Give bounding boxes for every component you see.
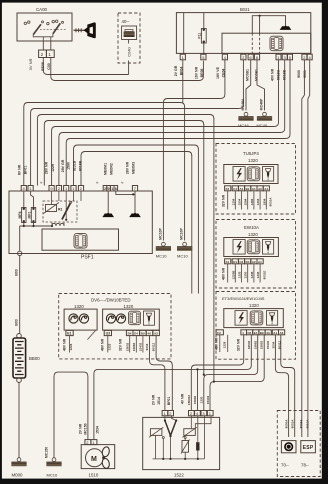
svg-text:ET3/EW10J4/EW10J4S: ET3/EW10J4/EW10J4S xyxy=(222,296,265,301)
pin 5 right group xyxy=(288,54,293,60)
svg-text:E4: E4 xyxy=(134,332,138,336)
svg-text:15402: 15402 xyxy=(206,395,210,404)
svg-text:A1: A1 xyxy=(239,187,243,191)
wire BSI pin6 to MC46A xyxy=(246,60,251,111)
svg-text:M: M xyxy=(91,456,97,463)
svg-text:C00: C00 xyxy=(47,63,51,69)
wire L2 : PSF1 pin1 to BSI pin2 xyxy=(31,109,240,186)
pin 5 xyxy=(201,54,206,60)
svg-text:MC10P: MC10P xyxy=(158,227,162,239)
relay feed wires from pins xyxy=(52,191,81,220)
svg-text:R1: R1 xyxy=(58,208,63,212)
svg-text:MC150: MC150 xyxy=(44,447,48,458)
svg-text:MC46P: MC46P xyxy=(260,98,264,110)
relay R1 dashed box xyxy=(43,201,77,222)
svg-text:15992: 15992 xyxy=(132,342,136,351)
ECU DV6/DW10BTED 1320 xyxy=(59,294,171,359)
svg-text:1534: 1534 xyxy=(95,426,99,434)
svg-text:MC150: MC150 xyxy=(84,423,88,434)
svg-text:9018B: 9018B xyxy=(78,160,82,171)
svg-text:B9: B9 xyxy=(260,331,264,335)
svg-text:1335: 1335 xyxy=(238,271,242,278)
wire L6 : PSF1 to BSI right pin drop xyxy=(59,133,281,186)
svg-text:MC46: MC46 xyxy=(257,123,268,128)
svg-text:MC46A: MC46A xyxy=(241,98,245,110)
svg-text:A9: A9 xyxy=(258,187,262,191)
svg-text:15402: 15402 xyxy=(138,342,142,351)
svg-text:1504: 1504 xyxy=(238,198,242,205)
svg-text:1204: 1204 xyxy=(231,198,235,205)
svg-text:15992: 15992 xyxy=(253,340,257,349)
1522 interior xyxy=(149,416,211,460)
svg-text:1304: 1304 xyxy=(256,198,260,205)
DV6 right stubs xyxy=(130,336,143,353)
svg-text:9001Z: 9001Z xyxy=(152,343,156,352)
svg-text:32V NR: 32V NR xyxy=(119,338,123,351)
svg-text:A1: A1 xyxy=(252,187,256,191)
svg-text:9010A: 9010A xyxy=(306,419,310,429)
svg-text:15992: 15992 xyxy=(193,395,197,404)
BSI internal link to splice flag xyxy=(252,15,285,54)
BSI connector icon xyxy=(270,36,283,51)
connector MC10 (left) xyxy=(156,227,171,258)
svg-text:BF01: BF01 xyxy=(24,166,28,175)
svg-text:BSI1: BSI1 xyxy=(240,7,250,12)
svg-text:A3: A3 xyxy=(154,332,158,336)
ignition key symbol xyxy=(74,22,96,38)
ET3 stub wires to ESP xyxy=(275,335,288,437)
junction of bus drop with 1522 pin3 wire xyxy=(203,374,205,376)
wire MC10P right drop xyxy=(184,106,186,241)
wire L9 : PSF1 to DV6 drop xyxy=(81,152,192,186)
svg-text:F3: F3 xyxy=(226,187,230,191)
DV6 U3 stub xyxy=(107,336,109,353)
PSF1 connector icon xyxy=(74,234,87,249)
svg-text:1514: 1514 xyxy=(157,397,161,405)
svg-text:1229: 1229 xyxy=(51,164,55,172)
svg-text:B03: B03 xyxy=(14,269,18,275)
svg-text:ME0M1: ME0M1 xyxy=(104,163,108,175)
wire MC150 : fan motor ground to MC10 xyxy=(54,372,88,458)
svg-text:ME0M3: ME0M3 xyxy=(131,162,135,174)
connector MC10 (right) xyxy=(177,227,192,258)
svg-text:1594: 1594 xyxy=(244,198,248,205)
svg-text:BF01: BF01 xyxy=(167,397,171,406)
svg-text:E1: E1 xyxy=(67,332,71,336)
svg-text:32V NR: 32V NR xyxy=(222,194,226,207)
svg-text:1320: 1320 xyxy=(248,158,258,163)
svg-text:1340: 1340 xyxy=(256,271,260,278)
wire ET3 stub to 1522 pin 3 xyxy=(204,335,258,411)
svg-text:1904: 1904 xyxy=(262,198,266,205)
svg-text:MC0B1: MC0B1 xyxy=(246,69,250,81)
wire L3 : PSF1 to long drop 213.9 xyxy=(37,115,214,186)
option box 40-- with connector C040 xyxy=(118,13,140,75)
wire 1534 : ET3 stub to fan motor 1510 pin 1 xyxy=(94,335,251,440)
svg-text:CA00: CA00 xyxy=(36,7,48,12)
svg-text:9000: 9000 xyxy=(297,70,301,78)
DV6 glow feed stub xyxy=(69,336,71,353)
svg-text:C1: C1 xyxy=(233,187,237,191)
svg-text:3V NR: 3V NR xyxy=(28,58,33,70)
pin 1 right group xyxy=(276,54,281,60)
svg-text:C040: C040 xyxy=(127,46,132,56)
svg-text:28V GR: 28V GR xyxy=(61,159,65,172)
svg-text:48V NR: 48V NR xyxy=(222,267,226,280)
svg-text:40V NR: 40V NR xyxy=(271,68,275,81)
splice flag inside BSI1 xyxy=(280,26,292,30)
PSF1 ground wire right with branch xyxy=(116,191,135,213)
svg-text:1330: 1330 xyxy=(200,396,204,403)
svg-text:32V NR: 32V NR xyxy=(237,338,241,351)
svg-text:B9: B9 xyxy=(141,332,145,336)
svg-text:2: 2 xyxy=(104,187,106,191)
svg-text:1394: 1394 xyxy=(250,198,254,205)
TU5JP4 wire stubs xyxy=(228,191,267,210)
wire B03 PSF1 to battery xyxy=(19,256,21,334)
svg-text:MC0B1: MC0B1 xyxy=(255,69,259,81)
wires BSI right pins down to bus xyxy=(274,60,278,127)
ignition switch CA00 xyxy=(17,7,72,41)
CA00 connector pins 2 / 1 xyxy=(39,41,55,58)
ground M000 xyxy=(11,458,26,478)
wire ET3 stub to 1522 pin 1 xyxy=(210,335,264,411)
wire L0 : BSI pin4 west to MC10P drop xyxy=(163,99,220,103)
wire ET3 stub to 1522 pin 2 xyxy=(191,335,243,411)
EW10A pin row xyxy=(225,259,264,264)
svg-text:9001A: 9001A xyxy=(269,197,273,207)
wire L1 : bus PSF1 pin4 to MC46 side xyxy=(24,103,185,186)
pin 1 xyxy=(180,54,185,60)
pin 4 xyxy=(222,54,227,60)
DV6 wires to 1522 pins 1 and 2 xyxy=(150,336,165,411)
wire BSI pin8 to MC46P xyxy=(257,60,265,111)
svg-text:1350: 1350 xyxy=(244,271,248,278)
fuse output bus to battery terminal xyxy=(20,226,52,251)
pin 8 xyxy=(254,54,259,60)
EW10A wire stubs xyxy=(228,264,260,283)
svg-text:ME0R2: ME0R2 xyxy=(109,163,113,175)
svg-text:9231B: 9231B xyxy=(73,160,77,171)
scan border frame xyxy=(0,0,328,3)
wire L5 : PSF1 pin9 to BSI right pin drop xyxy=(52,127,275,186)
svg-text:E4: E4 xyxy=(233,260,237,264)
svg-text:8: 8 xyxy=(115,187,117,191)
svg-text:B1: B1 xyxy=(246,187,250,191)
svg-text:MF1: MF1 xyxy=(28,211,32,218)
svg-text:78--: 78-- xyxy=(301,463,309,468)
wire L8 : PSF1 to DV6 drop xyxy=(74,145,199,186)
svg-text:MC10: MC10 xyxy=(177,254,188,259)
svg-text:8V NR: 8V NR xyxy=(18,164,22,175)
svg-text:9003: 9003 xyxy=(145,343,149,350)
svg-text:DV6----/DW10BTED: DV6----/DW10BTED xyxy=(91,298,131,303)
svg-text:15640Z: 15640Z xyxy=(187,395,191,405)
svg-text:1229: 1229 xyxy=(223,341,227,348)
svg-text:BE08: BE08 xyxy=(41,62,45,71)
TU5JP4 pin row xyxy=(225,186,270,191)
wire BE08 : CA00 pin2 to BSI1 pin5 xyxy=(43,58,128,75)
svg-text:BB00: BB00 xyxy=(29,356,40,361)
svg-text:1345: 1345 xyxy=(250,271,254,278)
svg-text:1522: 1522 xyxy=(174,473,184,478)
ET3 pin row xyxy=(216,330,285,335)
svg-text:48V NR: 48V NR xyxy=(62,338,66,351)
svg-text:2V GR: 2V GR xyxy=(174,65,178,76)
svg-text:1320: 1320 xyxy=(249,303,259,308)
ET3 left stubs xyxy=(220,335,228,352)
svg-text:1590: 1590 xyxy=(67,162,71,170)
svg-text:MC46: MC46 xyxy=(238,123,249,128)
long wire down to 1522 pin3 join xyxy=(203,124,205,375)
svg-text:F2: F2 xyxy=(217,331,221,335)
svg-text:F11: F11 xyxy=(198,33,202,39)
svg-text:MC10: MC10 xyxy=(156,254,167,259)
svg-text:M000: M000 xyxy=(12,473,24,478)
svg-text:16502: 16502 xyxy=(247,340,251,349)
svg-text:28V NR: 28V NR xyxy=(126,161,130,174)
svg-text:16V VE: 16V VE xyxy=(216,66,220,79)
svg-text:U3: U3 xyxy=(106,332,111,336)
wire C00 : CA00 pin1 to connector C040 xyxy=(51,58,204,81)
fan motor 1510 xyxy=(81,440,115,478)
svg-text:5004: 5004 xyxy=(272,341,276,348)
fuse F11 xyxy=(198,13,207,55)
PSF1 pin row xyxy=(21,186,137,192)
wire branch to 1522 pin 4 with junction xyxy=(197,369,199,410)
svg-text:1320: 1320 xyxy=(74,304,84,309)
svg-text:ESP: ESP xyxy=(303,445,314,451)
connector MC10 bottom left xyxy=(44,447,61,478)
svg-text:A2: A2 xyxy=(252,260,256,264)
svg-text:D4: D4 xyxy=(248,331,252,335)
wire 9001 : BSI pin4(right) straight down to ESP xyxy=(308,60,310,437)
connector MC46 (P) xyxy=(257,98,273,128)
svg-text:9000A: 9000A xyxy=(285,419,289,429)
svg-text:1225B: 1225B xyxy=(231,270,235,280)
svg-text:BE08: BE08 xyxy=(200,69,204,78)
wire battery to ground xyxy=(18,383,20,458)
ECU TU5JP4 1320 xyxy=(216,144,296,215)
svg-text:16V NR: 16V NR xyxy=(195,66,199,79)
PSF1 bottom terminal circle xyxy=(18,251,22,255)
svg-text:EW10A: EW10A xyxy=(244,225,259,230)
svg-text:A3: A3 xyxy=(280,331,284,335)
svg-text:D4: D4 xyxy=(246,260,250,264)
maxi fuse MF4 xyxy=(18,191,26,226)
svg-text:48V NR: 48V NR xyxy=(101,338,105,351)
wire L4 : PSF1 to long drop 204.5 xyxy=(44,121,204,186)
svg-text:TU5JP4: TU5JP4 xyxy=(243,151,259,156)
PSF1 inner module box xyxy=(42,229,119,250)
svg-text:B03: B03 xyxy=(14,319,18,325)
wire drop to DV6 box top xyxy=(191,155,193,294)
svg-text:9001A: 9001A xyxy=(291,419,295,429)
svg-text:28V NR: 28V NR xyxy=(45,161,49,174)
ECU EW10A 1320 xyxy=(216,220,296,289)
svg-text:PSF1: PSF1 xyxy=(81,255,94,261)
svg-text:15602: 15602 xyxy=(126,342,130,351)
svg-text:MF4: MF4 xyxy=(18,211,22,218)
BSI1 body xyxy=(176,7,310,53)
svg-text:4V NR: 4V NR xyxy=(180,393,184,404)
svg-text:2V NR: 2V NR xyxy=(151,394,155,405)
svg-text:1510: 1510 xyxy=(89,473,99,478)
svg-text:A1: A1 xyxy=(273,331,277,335)
long wire down to 1522 pin1 join xyxy=(213,118,215,382)
relay coil Y1 symbol xyxy=(52,223,64,226)
relay unit 1522 xyxy=(143,411,220,478)
svg-text:1223: 1223 xyxy=(108,343,112,350)
svg-text:D4: D4 xyxy=(128,332,132,336)
pin 4 far right xyxy=(307,54,312,60)
ground flag right inside PSF1 xyxy=(129,213,141,217)
wire BSI pin1 down to bus L1 xyxy=(182,60,184,103)
svg-text:48V NR: 48V NR xyxy=(214,337,218,350)
pin 2 xyxy=(241,54,246,60)
ECU ET3/EW10J4/EW10J4S 1320 xyxy=(216,292,296,360)
wire 9000 : BSI pin2(right) straight down to ESP xyxy=(302,60,305,437)
pin 3 right group xyxy=(282,54,287,60)
svg-text:A4: A4 xyxy=(264,187,268,191)
wire drop to DV6 box top xyxy=(197,149,199,294)
svg-text:E4: E4 xyxy=(254,331,258,335)
svg-text:9001E: 9001E xyxy=(262,271,266,280)
maxi fuse MF1 xyxy=(28,191,36,226)
svg-text:40--: 40-- xyxy=(122,19,130,24)
svg-text:1320: 1320 xyxy=(124,304,134,309)
battery BB00 xyxy=(13,334,40,383)
wire MC10P left drop xyxy=(162,102,164,241)
svg-text:C3: C3 xyxy=(239,260,243,264)
wire BSI pin4 down to bus L0 xyxy=(221,60,225,99)
PSF1 outer box xyxy=(9,191,152,254)
svg-text:1320: 1320 xyxy=(248,232,258,237)
svg-text:15952: 15952 xyxy=(260,340,264,349)
ESP dashed box xyxy=(277,411,320,477)
DV6 pin row xyxy=(66,330,160,335)
svg-text:MC10: MC10 xyxy=(47,473,58,478)
svg-text:F4: F4 xyxy=(226,260,230,264)
svg-text:9001Z: 9001Z xyxy=(278,341,282,350)
svg-text:1223: 1223 xyxy=(69,343,73,350)
svg-text:70--: 70-- xyxy=(281,463,289,468)
pin 6 xyxy=(248,54,253,60)
svg-text:15402: 15402 xyxy=(266,340,270,349)
PSF1 ground wire left xyxy=(107,191,109,213)
svg-text:9004A: 9004A xyxy=(299,419,303,429)
svg-text:A1: A1 xyxy=(258,260,262,264)
pin 2 far right xyxy=(302,54,307,60)
svg-text:0: 0 xyxy=(108,187,110,191)
svg-text:MC10P: MC10P xyxy=(180,227,184,239)
svg-text:1: 1 xyxy=(111,187,113,191)
connector MC46 (A) xyxy=(238,98,254,128)
wire L7 : PSF1 to BSI right pin drop xyxy=(66,139,286,186)
wire BSI pin2 down to bus L2 xyxy=(239,60,243,109)
svg-text:2V NR: 2V NR xyxy=(79,423,83,434)
ground flag left inside PSF1 xyxy=(102,213,114,217)
